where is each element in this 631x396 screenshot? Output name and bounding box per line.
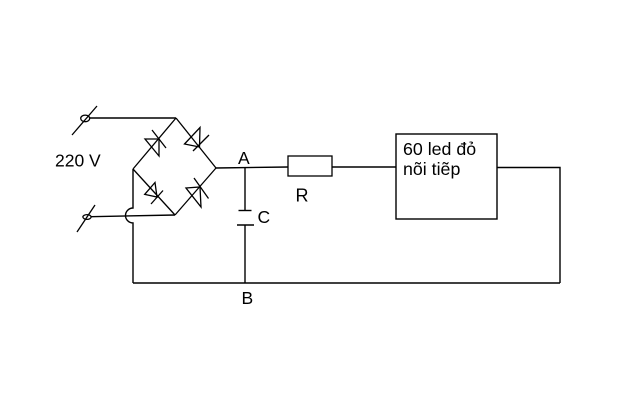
label C <box>258 207 271 227</box>
svg-text:C: C <box>258 207 271 227</box>
LED box U1 <box>396 134 497 219</box>
bottom rail (node B) <box>133 282 560 284</box>
label B <box>242 288 254 308</box>
wire bottom AC <box>91 215 175 217</box>
svg-text:60 led đỏ: 60 led đỏ <box>403 139 476 159</box>
svg-text:A: A <box>238 148 250 168</box>
node A label <box>238 148 250 168</box>
diode D4 (bridge bottom-right) <box>175 168 216 215</box>
resistor R <box>288 156 332 176</box>
wire node A (bridge right corner to resistor) <box>216 167 288 168</box>
svg-text:220 V: 220 V <box>55 151 101 171</box>
wire top AC <box>90 117 176 119</box>
terminal P2 (bottom plug) <box>77 205 95 232</box>
capacitor C <box>237 167 254 283</box>
svg-text:B: B <box>242 288 254 308</box>
terminal P1 (top plug) <box>72 106 97 135</box>
svg-text:R: R <box>296 186 309 206</box>
diode D2 (bridge top-right) <box>176 118 216 168</box>
diode D1 (bridge top-left) <box>133 118 176 169</box>
wire bridge left corner to bottom rail (with hop) <box>126 169 134 283</box>
wire resistor to LED box <box>332 166 396 168</box>
diode D3 (bridge bottom-left) <box>133 169 175 215</box>
wire LED box to right drop <box>497 168 560 284</box>
LED box text <box>403 139 476 179</box>
label 220 V <box>55 151 101 171</box>
svg-text:nõi tiẽp: nõi tiẽp <box>403 159 460 179</box>
label R <box>296 186 309 206</box>
